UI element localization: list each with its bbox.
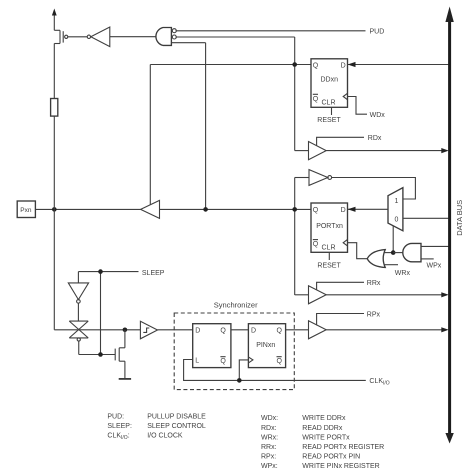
svg-text:Q: Q	[220, 328, 226, 335]
buffer RDx (read DDRx)	[309, 142, 327, 160]
buffer output driver	[141, 200, 160, 218]
wire AND input from PORTxn Q	[171, 43, 205, 210]
wire RPx output to data bus	[326, 327, 449, 332]
buffer RRx (read PORTx register)	[309, 286, 327, 304]
svg-text:WDx:: WDx:	[261, 415, 278, 422]
svg-text:D: D	[195, 328, 200, 335]
svg-text:D: D	[341, 207, 346, 214]
label RESET (PORTxn)	[317, 252, 341, 269]
svg-text:WDx: WDx	[370, 112, 386, 119]
wire PORTxn clock from OR gate	[348, 243, 368, 259]
node AND input junction	[203, 207, 208, 212]
flip-flop PINxn	[248, 324, 285, 368]
svg-text:Q: Q	[313, 207, 319, 214]
svg-text:Q: Q	[313, 62, 319, 69]
svg-text:PUD: PUD	[370, 29, 385, 36]
svg-text:SLEEP:: SLEEP:	[107, 423, 132, 430]
svg-text:SLEEP: SLEEP	[142, 270, 165, 277]
buffer Schmitt trigger	[140, 321, 157, 339]
node SLEEP junction top	[98, 269, 103, 274]
svg-text:Pxn: Pxn	[20, 207, 32, 214]
data bus	[445, 7, 453, 444]
legend left	[107, 413, 206, 441]
buffer RPx (read PORTx pin)	[309, 321, 327, 339]
gate AND WPx (mirrored left-pointing)	[403, 243, 421, 261]
svg-text:WRITE DDRx: WRITE DDRx	[302, 415, 346, 422]
node pin column junction	[52, 207, 57, 212]
wire Schmitt output to L1 D	[158, 329, 193, 331]
svg-text:WRx:: WRx:	[261, 434, 278, 441]
wire data bus to AND2 top input	[421, 245, 449, 247]
svg-text:RPx:: RPx:	[261, 454, 276, 461]
wire RDx input	[295, 150, 309, 152]
svg-text:CLKI/O:: CLKI/O:	[107, 432, 129, 441]
gate OR (WRx + WPx to PORTxn clock, mirrored)	[367, 250, 385, 268]
wire WPx input	[421, 259, 442, 269]
svg-text:RESET: RESET	[317, 262, 341, 269]
svg-text:RRx: RRx	[367, 280, 381, 287]
node DDxn Q junction	[292, 62, 297, 67]
svg-text:PORTxn: PORTxn	[316, 223, 343, 230]
latch L1 (sync first stage)	[193, 324, 231, 368]
wire DDxn Q net	[150, 65, 311, 205]
svg-text:PUD:: PUD:	[107, 413, 124, 420]
wire AND2 output	[393, 252, 403, 254]
svg-text:READ PORTx PIN: READ PORTx PIN	[302, 454, 360, 461]
wire SLEEP net	[78, 272, 138, 355]
svg-text:CLKI/O: CLKI/O	[369, 378, 389, 387]
wire OR bottom input WRx	[385, 265, 411, 278]
wire inverter to AND gate output	[110, 36, 156, 38]
svg-text:Q: Q	[220, 358, 226, 365]
transistor pull-up PMOS	[54, 30, 87, 43]
svg-text:RPx: RPx	[367, 312, 381, 319]
AND gate (pull-up enable, mirrored left-pointing)	[156, 28, 171, 46]
node WPx junction	[391, 250, 396, 255]
svg-text:WRx: WRx	[395, 270, 411, 277]
transmission gate (sleep pass gate)	[69, 321, 88, 341]
legend right	[261, 415, 384, 470]
svg-text:0: 0	[395, 217, 399, 224]
svg-text:READ PORTx REGISTER: READ PORTx REGISTER	[302, 444, 384, 451]
wire OR top input	[385, 252, 394, 254]
svg-text:L: L	[195, 358, 199, 365]
svg-text:D: D	[341, 62, 346, 69]
wire data bus to mux 0 input	[403, 217, 449, 219]
svg-text:RDx: RDx	[368, 135, 382, 142]
wire AND input from DDxn Q	[176, 37, 295, 151]
svg-text:CLR: CLR	[322, 244, 336, 251]
inverter toggle (PORTxn Q to mux 1)	[295, 170, 416, 199]
node clk junction	[237, 378, 242, 383]
svg-text:DDxn: DDxn	[321, 77, 339, 84]
wire pin column	[54, 116, 140, 330]
wire mux select	[392, 226, 394, 253]
wire WDx to DDxn clock	[348, 97, 386, 119]
svg-text:SLEEP CONTROL: SLEEP CONTROL	[147, 423, 206, 430]
svg-text:WPx: WPx	[427, 262, 442, 269]
pad Pxn	[17, 201, 35, 218]
svg-text:RDx:: RDx:	[261, 425, 277, 432]
wire RDx enable	[317, 135, 382, 146]
svg-text:Synchronizer: Synchronizer	[214, 301, 258, 310]
wire PORTxn Q net vertical	[294, 178, 296, 296]
wire L1 Q to PINxn D	[231, 329, 249, 331]
svg-text:WPx:: WPx:	[261, 463, 278, 470]
inverter SLEEP (points down)	[68, 272, 88, 322]
wire PINxn Q to RPx input	[286, 329, 309, 331]
svg-text:1: 1	[395, 198, 399, 205]
svg-text:WRITE PORTx: WRITE PORTx	[302, 434, 350, 441]
node PORTxn Q junction	[292, 207, 297, 212]
flip-flop DDxn	[311, 59, 348, 108]
synchronizer dashed box	[174, 301, 294, 390]
svg-text:RESET: RESET	[317, 117, 341, 124]
flip-flop PORTxn	[311, 203, 348, 252]
wire RRx enable	[317, 280, 381, 290]
svg-text:WRITE PINx REGISTER: WRITE PINx REGISTER	[302, 463, 379, 470]
svg-text:RRx:: RRx:	[261, 444, 277, 451]
svg-text:PINxn: PINxn	[256, 342, 275, 349]
svg-text:Q: Q	[277, 358, 283, 365]
wire PUD net	[176, 30, 366, 32]
ground	[119, 378, 131, 380]
wire data bus to DDxn D	[348, 62, 449, 67]
node Schmitt input junction	[123, 328, 128, 333]
wire clk I/O net	[184, 360, 366, 381]
wire pin row (Pxn to PORTxn Q)	[35, 208, 311, 210]
svg-text:Q: Q	[313, 96, 319, 103]
svg-text:CLR: CLR	[322, 99, 336, 106]
label RESET (DDxn)	[317, 107, 341, 124]
wire mux output to PORTxn D	[348, 207, 388, 212]
wire RDx output to data bus	[326, 148, 449, 153]
node SLEEP junction bottom	[98, 352, 103, 357]
mux WPx select	[388, 188, 403, 231]
wire VCC stub to pull-up	[52, 9, 57, 31]
resistor pull-up	[51, 44, 58, 117]
inverted input bubble (DDxn Q)	[172, 35, 176, 39]
inverter U1 (pull-up control, points left)	[87, 27, 110, 47]
svg-text:READ DDRx: READ DDRx	[302, 425, 343, 432]
svg-text:DATA BUS: DATA BUS	[455, 200, 464, 236]
transistor clamp NMOS	[115, 330, 125, 379]
svg-text:D: D	[251, 328, 256, 335]
svg-text:Q: Q	[277, 328, 283, 335]
svg-text:I/O CLOCK: I/O CLOCK	[147, 432, 183, 439]
inverted input bubble (PUD)	[172, 29, 176, 33]
wire RRx input	[295, 294, 309, 296]
wire RRx output to data bus	[326, 292, 449, 297]
wire RPx enable	[317, 312, 381, 326]
svg-text:PULLUP DISABLE: PULLUP DISABLE	[147, 413, 206, 420]
svg-text:Q: Q	[313, 241, 319, 248]
